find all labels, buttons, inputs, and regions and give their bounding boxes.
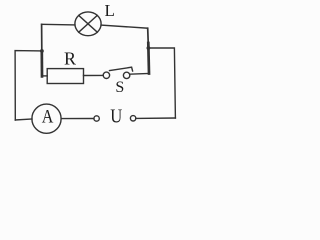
svg-text:S: S	[115, 79, 124, 96]
svg-text:A: A	[42, 106, 54, 127]
svg-text:L: L	[105, 1, 115, 20]
svg-text:U: U	[110, 105, 122, 127]
svg-text:R: R	[64, 49, 76, 69]
